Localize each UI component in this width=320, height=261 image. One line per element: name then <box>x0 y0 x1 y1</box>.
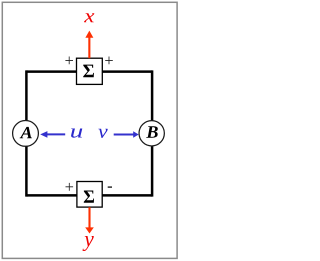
summing junction U2 (bottom sigma box) <box>77 182 102 208</box>
node B (right circle) <box>139 121 164 146</box>
wire: top-left segment (sum output to upper-left corner) <box>26 70 78 73</box>
plus sign at U1 left input <box>65 57 73 65</box>
label y <box>83 236 94 251</box>
signal x arrow (red, upward out of U1) <box>85 31 93 59</box>
wire: right vertical segment through node B <box>151 70 154 196</box>
plus sign at U1 right input <box>105 57 113 65</box>
label u <box>71 128 82 137</box>
plus sign at U2 left input <box>66 183 74 191</box>
wire: bottom-right segment <box>101 194 152 197</box>
minus sign at U2 right input <box>108 186 112 187</box>
label v <box>98 129 107 138</box>
wire: bottom-left segment <box>26 194 78 197</box>
node A (left circle) <box>13 120 39 146</box>
signal v arrow (blue, pointing right into B) <box>114 131 139 138</box>
wire: left vertical segment through node A <box>25 70 28 196</box>
signal y arrow (red, downward out of U2) <box>85 207 94 233</box>
label x <box>84 13 94 22</box>
summing junction U1 (top sigma box) <box>77 58 103 84</box>
signal u arrow (blue, pointing left into A) <box>40 131 65 138</box>
wire: top-right segment <box>101 70 152 73</box>
